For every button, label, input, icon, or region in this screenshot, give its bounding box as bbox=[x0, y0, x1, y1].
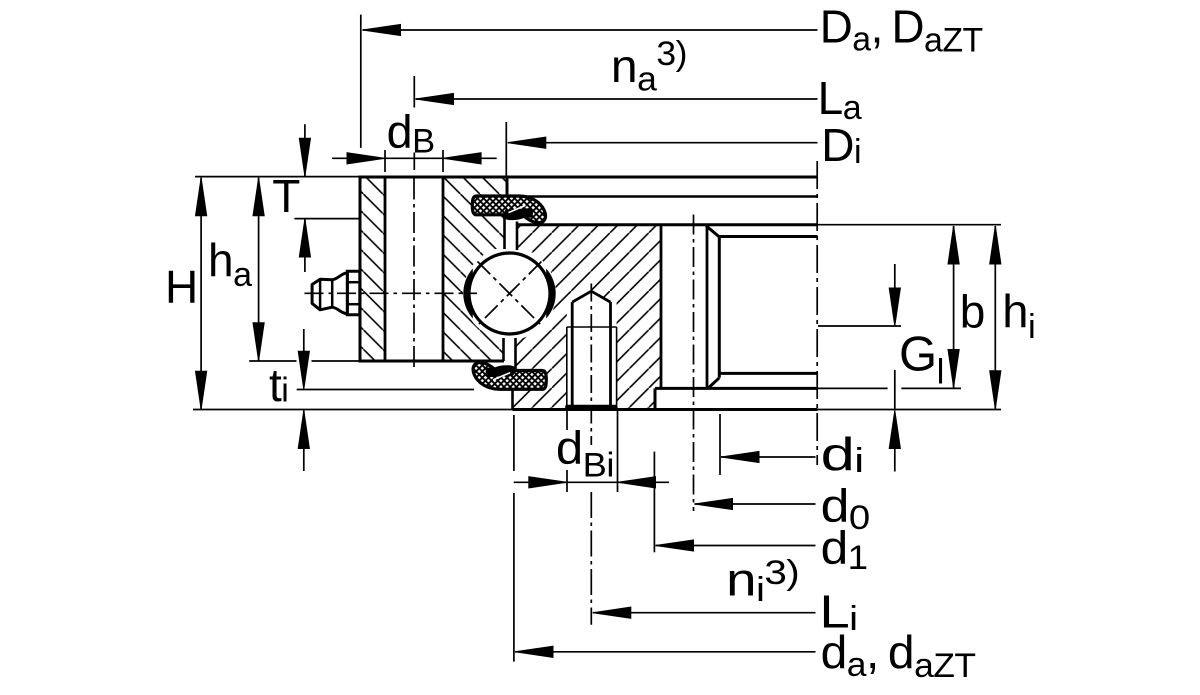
dimension di bbox=[719, 414, 721, 475]
inner ring fixing hole right wall bbox=[706, 226, 709, 389]
dB dimension crossing tick bbox=[413, 153, 415, 171]
dimension ti bbox=[297, 389, 474, 391]
dimension T bbox=[294, 218, 359, 220]
outer ring outer edge bbox=[359, 176, 362, 363]
ball centre cross (diagonal dash-dot) bbox=[478, 262, 542, 326]
svg-text:H: H bbox=[165, 261, 198, 313]
dimension La bbox=[413, 76, 415, 108]
dimension b bbox=[818, 224, 1002, 226]
dimension hi bbox=[994, 226, 996, 409]
dimension Li bbox=[593, 612, 816, 614]
dimension d1 bbox=[653, 452, 655, 553]
lower gap slot right edge bbox=[514, 338, 517, 378]
upper seal contact lip bbox=[505, 208, 533, 218]
outer ring seal shoulder line to axis bbox=[507, 195, 818, 198]
lower gap slot left edge bbox=[502, 338, 505, 361]
dimension ha bbox=[249, 360, 296, 362]
gear tip line to axis (bottom) bbox=[719, 372, 817, 375]
outer ring bottom face bbox=[359, 360, 505, 363]
gear tip line to axis (top) bbox=[719, 235, 818, 238]
dimension Di bbox=[505, 122, 507, 176]
bolt hole dB right wall bbox=[442, 177, 445, 361]
lower seal contact lip bbox=[486, 367, 514, 377]
inner ring bottom face bbox=[513, 408, 818, 411]
raceway cutout around ball bbox=[463, 247, 556, 340]
inner ring recess surface line bbox=[655, 387, 818, 390]
outer ring inner edge top bbox=[506, 177, 509, 198]
dimension Da DaZT bbox=[360, 15, 362, 148]
outer ring top face line bbox=[360, 176, 818, 179]
grease passage centreline bbox=[305, 292, 478, 294]
threaded hole dBi white interior bbox=[567, 291, 617, 408]
lower seal (press-in seal, cross-hatched) bbox=[473, 363, 546, 390]
inner ring fixing hole left wall bbox=[660, 225, 663, 389]
dimension H bbox=[195, 176, 360, 178]
dimension d0 bbox=[695, 503, 816, 505]
svg-text:T: T bbox=[272, 170, 300, 222]
threaded hole dBi thread runout line bbox=[567, 326, 617, 328]
bolt hole dB centreline bbox=[413, 179, 415, 372]
threaded hole dBi mouth chamfer bar bbox=[565, 405, 617, 411]
threaded hole dBi centreline / Li extension bbox=[590, 284, 592, 446]
inner ring bore wall bbox=[718, 237, 721, 378]
inner ring lower left edge bbox=[511, 384, 514, 410]
upper gap slot right edge / inner ring corner bbox=[516, 222, 519, 251]
dimension dBi bbox=[566, 411, 568, 430]
dimension da daZT bbox=[513, 415, 515, 471]
inner ring bore bottom chamfer bbox=[708, 378, 719, 389]
threaded hole dBi drill point bbox=[572, 291, 610, 302]
race gap crescent left of ball bbox=[463, 269, 473, 319]
outer ring section (right hatched part) bbox=[443, 177, 507, 361]
inner ring recess step edge d1 bbox=[654, 388, 657, 409]
threaded hole dBi thread crest lines bbox=[566, 327, 568, 405]
dimension Gl bbox=[818, 325, 901, 327]
inner ring section (hatched) bbox=[513, 225, 662, 410]
bolt hole dB left wall bbox=[384, 177, 387, 361]
grease nipple bbox=[312, 271, 360, 315]
inner ring top face line bbox=[517, 223, 818, 226]
upper seal (press-in seal, cross-hatched) bbox=[472, 196, 545, 223]
svg-text:b: b bbox=[960, 286, 985, 338]
threaded hole dBi core walls bbox=[571, 302, 574, 406]
bearing axis centreline bbox=[816, 161, 818, 465]
ball bbox=[469, 253, 550, 334]
outer ring section (left hatched band) bbox=[360, 177, 385, 361]
dimension dB bbox=[384, 150, 386, 172]
upper gap slot left edge bbox=[503, 212, 506, 249]
race gap crescent right of ball bbox=[546, 269, 556, 319]
fixing hole d0 centreline bbox=[693, 215, 695, 512]
inner ring bore top chamfer bbox=[706, 226, 719, 237]
